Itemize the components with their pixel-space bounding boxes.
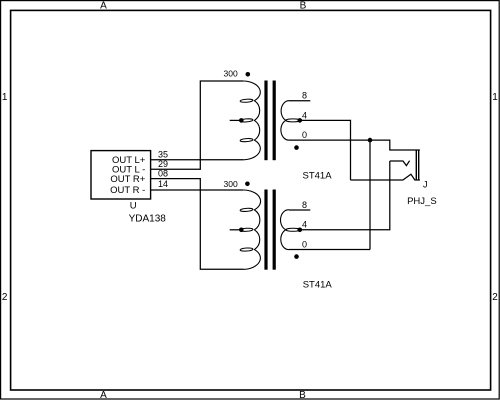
T2 core bar right <box>273 190 276 270</box>
svg-text:ST41A: ST41A <box>303 280 333 291</box>
T1 primary center tap wire <box>230 119 243 121</box>
T1 core bar left <box>264 81 267 161</box>
T2 primary polarity dot <box>245 182 250 187</box>
T1 primary crossover loop 2 <box>240 118 253 122</box>
svg-text:4: 4 <box>302 110 307 120</box>
svg-text:8: 8 <box>302 200 307 210</box>
T1 primary polarity dot <box>246 72 251 77</box>
svg-text:J: J <box>423 180 428 190</box>
svg-text:A: A <box>100 0 107 11</box>
T1 primary winding <box>243 81 260 160</box>
wire pin29 to T1 primary top <box>151 81 243 169</box>
svg-text:4: 4 <box>302 220 307 230</box>
svg-text:8: 8 <box>302 91 307 101</box>
svg-text:300: 300 <box>224 68 238 78</box>
T2 primary crossover loop 2 <box>240 228 253 232</box>
T1 primary center tap dot <box>239 118 244 123</box>
svg-text:OUT R+: OUT R+ <box>110 174 145 185</box>
jack middle contact with notch <box>390 161 410 166</box>
jack sleeve bar left <box>415 150 417 180</box>
T1 secondary winding <box>281 101 289 140</box>
svg-text:OUT R -: OUT R - <box>110 185 145 196</box>
T1 primary crossover loop 1 <box>240 99 253 103</box>
svg-text:2: 2 <box>492 292 498 303</box>
IC U YDA138 box <box>91 151 151 199</box>
T1 tap4 junction dot <box>298 118 303 123</box>
svg-text:U: U <box>130 200 137 211</box>
T1 primary crossover loop 3 <box>240 138 253 142</box>
T2 secondary polarity dot <box>294 254 299 259</box>
phone jack J PHJ_S <box>351 150 420 180</box>
T1 secondary polarity dot <box>294 145 299 150</box>
jack lower contact with notch <box>351 174 420 180</box>
transformer T2 <box>224 179 333 291</box>
T2 primary crossover loop 3 <box>240 248 253 252</box>
wire T1 tap4 to jack lower contact <box>298 120 351 180</box>
svg-text:300: 300 <box>224 179 238 189</box>
svg-text:ST41A: ST41A <box>303 170 333 181</box>
svg-text:1: 1 <box>492 92 498 103</box>
svg-text:PHJ_S: PHJ_S <box>407 196 437 207</box>
svg-text:1: 1 <box>2 92 8 103</box>
jack sleeve bar right <box>418 150 420 180</box>
wire T2 tap0 <box>289 249 370 251</box>
wire T1 tap0 to jack frame <box>289 140 420 150</box>
wire 0-rail T1 to T2 <box>369 140 371 249</box>
0-rail junction dot <box>368 138 373 143</box>
wire T2 tap4 to jack middle contact <box>298 161 390 230</box>
wire pin14 to T2 primary top <box>151 189 243 191</box>
T1 secondary crossover loop <box>286 119 300 122</box>
svg-text:14: 14 <box>158 179 168 189</box>
wire T1 tap8 stub <box>289 100 310 102</box>
svg-text:B: B <box>300 0 307 11</box>
T2 primary center tap dot <box>239 228 244 233</box>
T2 tap4 junction dot <box>298 228 303 233</box>
wire T2 tap8 stub <box>289 209 310 211</box>
T1 core bar right <box>273 81 276 161</box>
svg-text:YDA138: YDA138 <box>129 214 167 225</box>
svg-text:08: 08 <box>158 168 168 178</box>
svg-text:0: 0 <box>302 130 307 140</box>
T2 secondary crossover loop <box>286 228 300 231</box>
T2 primary crossover loop 1 <box>240 208 253 212</box>
svg-text:2: 2 <box>2 292 8 303</box>
transformer T1 <box>224 68 333 181</box>
svg-text:A: A <box>100 390 107 400</box>
wire pin35 to T1 primary bottom <box>151 159 243 161</box>
T2 primary winding <box>243 190 261 269</box>
svg-text:B: B <box>299 390 306 400</box>
svg-text:0: 0 <box>302 239 307 249</box>
T2 secondary winding <box>281 210 289 250</box>
T2 primary center tap wire <box>230 229 243 231</box>
wire pin08 to T2 primary bottom <box>151 179 243 270</box>
T2 core bar left <box>264 190 267 270</box>
